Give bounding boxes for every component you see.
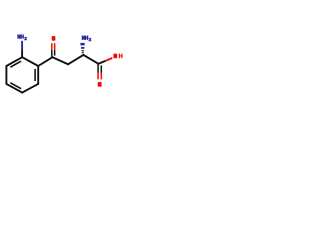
label NH2 (alpha amino), vector glyphs [82,36,87,40]
bond C10 to OH [99,58,113,64]
ketone C7=O double bond [52,43,55,57]
wire inner line right [34,69,36,81]
letter H [20,34,22,38]
letter H [85,36,87,40]
bond ring to aniline NH2 [21,41,23,57]
bond C8 to C9 [68,55,83,64]
ring inner aromatic lines [10,61,35,89]
dashed wedge C9 to alpha NH2 [80,43,84,53]
label NH2 (aniline), vector glyphs [18,34,23,38]
svg-text:2: 2 [89,37,92,43]
label O (acid carbonyl) [98,82,102,87]
letter O [113,54,117,59]
letter N [17,34,19,38]
wire inner line bottom-left [10,83,21,89]
wire ring edge left [5,66,7,84]
label OH (acid) [113,54,122,59]
wire ring edge right [37,66,39,84]
benzene ring [6,57,38,92]
wire ring edge top-left [6,57,22,66]
bond C7 to C8 [53,57,69,64]
wire ring edge bottom-right [22,84,38,93]
acid C10=O double bond [98,64,101,79]
wire ring edge top-right [22,57,38,66]
wire ring edge bottom-left [6,84,22,93]
bond ring to carbonyl C7 [38,57,52,66]
svg-text:2: 2 [24,36,27,42]
letter H [119,54,122,59]
letter N [81,36,83,40]
wire inner line top-left [10,61,21,67]
bond C9 to C10 [83,55,98,64]
label O (ketone) [52,36,56,41]
